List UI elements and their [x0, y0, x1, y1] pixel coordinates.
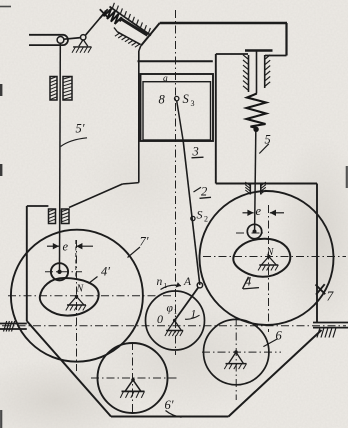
svg-text:1: 1 [174, 307, 178, 316]
svg-text:5: 5 [265, 133, 271, 147]
svg-text:6′: 6′ [165, 398, 174, 412]
svg-text:1: 1 [164, 281, 168, 290]
svg-text:e: e [256, 204, 262, 218]
svg-text:S: S [197, 208, 203, 222]
svg-text:φ: φ [167, 303, 174, 315]
svg-text:4′: 4′ [101, 265, 110, 279]
svg-text:2: 2 [204, 215, 208, 224]
svg-text:n: n [157, 276, 163, 288]
svg-text:N: N [76, 284, 85, 295]
svg-text:6: 6 [276, 329, 283, 343]
svg-text:e: e [63, 240, 69, 254]
svg-text:N: N [266, 247, 275, 258]
svg-text:S: S [183, 92, 190, 106]
svg-text:7′: 7′ [140, 235, 149, 249]
svg-text:8: 8 [159, 93, 166, 107]
svg-text:0: 0 [157, 312, 163, 326]
svg-text:3: 3 [192, 145, 199, 159]
svg-text:A: A [183, 276, 192, 288]
svg-text:a: a [163, 74, 168, 84]
svg-text:5′: 5′ [76, 122, 85, 136]
svg-text:3: 3 [191, 99, 195, 108]
svg-text:2: 2 [201, 185, 207, 199]
svg-text:1: 1 [191, 309, 197, 321]
svg-text:4: 4 [245, 275, 251, 289]
